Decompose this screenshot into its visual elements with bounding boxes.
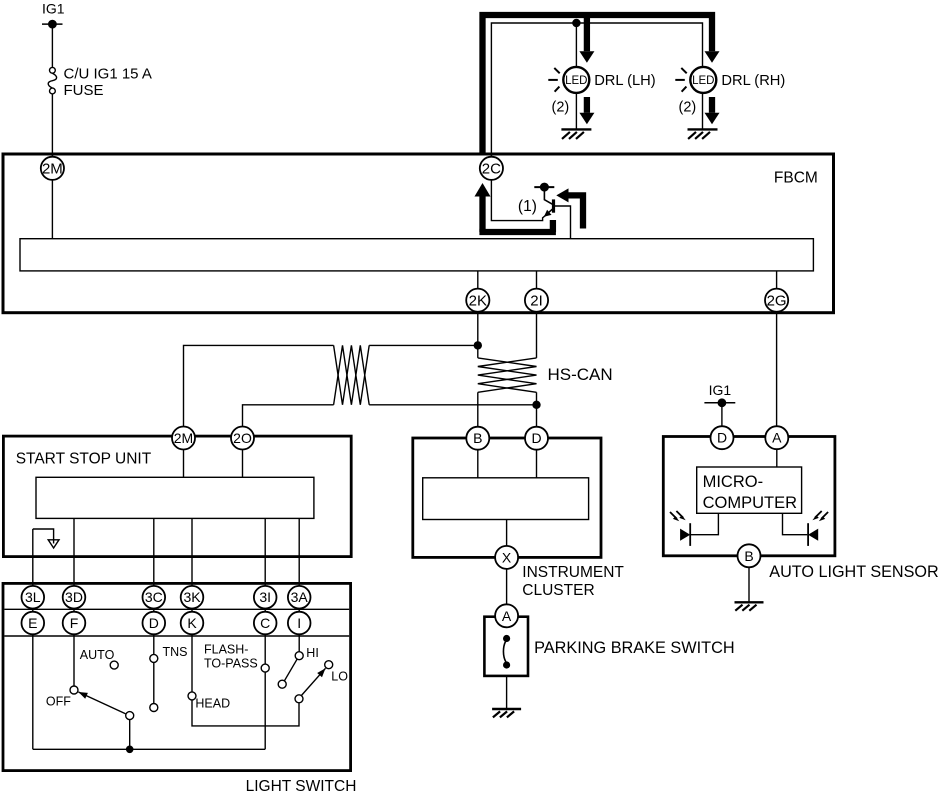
svg-text:LIGHT SWITCH: LIGHT SWITCH xyxy=(246,778,357,795)
pin A xyxy=(495,604,518,627)
svg-text:3C: 3C xyxy=(145,589,163,605)
wire braid to pin B xyxy=(477,392,479,426)
wire bus to 3D column xyxy=(73,518,75,686)
pivot contact main xyxy=(126,712,134,720)
contact TNS xyxy=(150,654,158,662)
svg-text:D: D xyxy=(531,430,541,446)
node IG1 sensor xyxy=(704,382,735,407)
contact LO xyxy=(325,661,333,669)
wire branch to LED LH xyxy=(575,23,577,67)
wire bus to 3K column xyxy=(191,518,193,692)
pin F xyxy=(63,612,86,635)
thick current arrow below LED LH xyxy=(579,97,594,124)
svg-text:3I: 3I xyxy=(259,589,271,605)
svg-text:START STOP UNIT: START STOP UNIT xyxy=(16,451,152,468)
FBCM box xyxy=(3,154,834,313)
pin 2M xyxy=(172,427,195,450)
switch arm LO with arrowhead xyxy=(302,668,326,695)
wire LED RH to ground xyxy=(702,93,704,129)
LIGHT SWITCH box xyxy=(3,583,351,770)
wire fuse to FBCM pin 2M xyxy=(51,94,53,160)
pin B xyxy=(466,427,489,450)
pin X xyxy=(495,546,518,569)
ground LED RH xyxy=(688,129,718,139)
junction dot on D wire xyxy=(532,401,540,409)
svg-text:D: D xyxy=(149,615,159,631)
svg-text:3L: 3L xyxy=(25,589,41,605)
HI arm wire xyxy=(284,659,297,681)
svg-text:A: A xyxy=(772,430,782,446)
wire B to bus xyxy=(477,445,479,478)
junction dot on 2K wire xyxy=(474,341,482,349)
wire bus to 3I column xyxy=(264,518,266,749)
svg-text:3A: 3A xyxy=(291,589,309,605)
svg-text:MICRO-: MICRO- xyxy=(703,473,764,491)
svg-text:LO: LO xyxy=(331,670,348,684)
pin 2O xyxy=(231,427,254,450)
wire D to bus xyxy=(536,445,538,478)
svg-text:I: I xyxy=(297,615,301,631)
wire bus to 2K xyxy=(477,271,479,358)
svg-text:K: K xyxy=(187,615,197,631)
svg-text:DRL (LH): DRL (LH) xyxy=(594,73,655,89)
LED DRL (RH) lamp xyxy=(675,67,785,115)
svg-text:C/U IG1 15 A: C/U IG1 15 A xyxy=(64,65,152,82)
pin 3I xyxy=(254,586,277,609)
svg-text:HS-CAN: HS-CAN xyxy=(548,365,613,384)
INSTRUMENT CLUSTER internal bus xyxy=(423,478,589,520)
photodiode left xyxy=(670,511,718,546)
wire transistor base to bus xyxy=(554,206,571,239)
wire bus to 2I xyxy=(536,271,538,358)
FBCM internal bus xyxy=(20,239,813,271)
wire 2O to bus xyxy=(242,445,244,477)
svg-text:FBCM: FBCM xyxy=(774,170,818,187)
svg-text:2K: 2K xyxy=(469,293,487,310)
svg-text:B: B xyxy=(473,430,482,446)
contact AUTO xyxy=(110,661,118,669)
wire IG1 to fuse xyxy=(51,24,53,67)
node IG1 xyxy=(42,1,65,29)
contact FLASH-TO-PASS xyxy=(261,664,269,672)
wire X to parking brake switch A xyxy=(506,569,508,608)
common wire E to C xyxy=(33,748,265,750)
contact OFF xyxy=(70,686,78,694)
svg-text:IG1: IG1 xyxy=(42,1,65,17)
svg-text:2C: 2C xyxy=(482,161,501,178)
svg-text:HEAD: HEAD xyxy=(195,697,230,711)
pin row separator line lower xyxy=(4,635,349,637)
contact HI xyxy=(295,652,303,660)
MICRO-COMPUTER block xyxy=(697,467,802,513)
svg-text:OFF: OFF xyxy=(46,695,71,709)
svg-text:PARKING BRAKE SWITCH: PARKING BRAKE SWITCH xyxy=(534,639,735,657)
INSTRUMENT CLUSTER box xyxy=(413,438,601,557)
LED DRL (LH) lamp xyxy=(548,67,655,115)
thick current arrow below LED RH xyxy=(705,97,720,124)
thick LED supply harness from 2C xyxy=(483,15,713,154)
svg-text:CLUSTER: CLUSTER xyxy=(522,582,594,599)
wire IG1 to pin D sensor xyxy=(721,403,723,427)
svg-text:D: D xyxy=(717,430,727,446)
svg-text:LED: LED xyxy=(565,75,587,87)
wire 2C to transistor emitter xyxy=(491,176,544,221)
wire braid to pin D xyxy=(536,392,538,426)
START STOP UNIT internal bus xyxy=(36,477,314,518)
svg-text:TNS: TNS xyxy=(163,645,188,659)
pin E xyxy=(22,612,45,635)
ground parking brake xyxy=(492,709,521,717)
thick branch arrow to LED LH xyxy=(584,15,590,51)
svg-text:(2): (2) xyxy=(679,99,697,115)
svg-text:DRL (RH): DRL (RH) xyxy=(721,73,785,89)
junction dot LED branch xyxy=(572,19,580,27)
wire A to micro-computer xyxy=(776,445,778,467)
pin 2C xyxy=(480,157,503,180)
svg-text:INSTRUMENT: INSTRUMENT xyxy=(522,564,624,581)
svg-text:COMPUTER: COMPUTER xyxy=(703,494,798,512)
pin C xyxy=(254,612,277,635)
svg-text:B: B xyxy=(744,548,753,564)
wire 2C to LED lamps xyxy=(491,23,702,156)
pin D sensor xyxy=(711,426,734,449)
pin 3A xyxy=(288,586,311,609)
wire LED LH to ground xyxy=(575,93,577,129)
wire 2M to bus xyxy=(183,445,185,477)
svg-text:HI: HI xyxy=(306,646,319,660)
thick current arrow up at 2C xyxy=(475,183,491,232)
pin 2G xyxy=(765,289,788,312)
svg-text:E: E xyxy=(28,615,37,631)
pin D xyxy=(143,612,166,635)
twisted pair braid right xyxy=(478,358,537,392)
svg-text:2M: 2M xyxy=(42,161,63,178)
svg-text:2G: 2G xyxy=(767,293,787,310)
svg-text:(1): (1) xyxy=(518,198,537,215)
svg-text:F: F xyxy=(70,615,79,631)
HI arm pivot contact xyxy=(278,680,286,688)
svg-text:FLASH-: FLASH- xyxy=(204,643,248,657)
pin 2K xyxy=(466,289,489,312)
AUTO LIGHT SENSOR box xyxy=(663,437,835,556)
switch arm OFF with arrowhead xyxy=(78,692,125,714)
wire B to ground xyxy=(748,567,750,602)
pin K xyxy=(181,612,204,635)
svg-text:C: C xyxy=(260,615,270,631)
TNS arm wire xyxy=(153,662,155,703)
svg-text:3D: 3D xyxy=(65,589,83,605)
TNS arm end contact xyxy=(150,704,158,712)
transistor Q (1) internal supply tap xyxy=(534,183,554,192)
svg-text:2O: 2O xyxy=(233,430,252,446)
thick arrowhead to LED RH xyxy=(705,51,720,63)
wire bus to 2G to auto light sensor A xyxy=(776,271,778,427)
thick current arrow into transistor base xyxy=(556,188,583,228)
ground sensor xyxy=(735,602,764,610)
pin 3K xyxy=(181,586,204,609)
contact HEAD xyxy=(188,692,196,700)
svg-text:AUTO LIGHT SENSOR: AUTO LIGHT SENSOR xyxy=(769,563,938,581)
pin D xyxy=(525,427,548,450)
pin B sensor xyxy=(738,544,761,567)
wire CAN-L 2O SSU to D xyxy=(243,405,537,426)
pin 2M xyxy=(41,157,64,180)
wire bus to 3C column xyxy=(153,518,155,654)
LO arm pivot contact xyxy=(295,695,303,703)
svg-text:LED: LED xyxy=(692,75,714,87)
svg-text:TO-PASS: TO-PASS xyxy=(204,657,258,671)
svg-text:2M: 2M xyxy=(174,430,193,446)
twisted pair braid left xyxy=(334,345,370,404)
svg-text:AUTO: AUTO xyxy=(80,648,115,662)
wire bus to 3A column xyxy=(298,518,300,651)
wire OFF arm pivot to common xyxy=(129,716,131,750)
wire 3L column xyxy=(32,529,34,749)
svg-text:3K: 3K xyxy=(183,589,201,605)
parking brake switch contacts xyxy=(503,635,510,669)
wire bus to X xyxy=(506,520,508,551)
wire HEAD to LO arm pivot xyxy=(192,700,299,726)
wire 2M to bus xyxy=(51,160,53,239)
pin 3D xyxy=(63,586,86,609)
pin 3L xyxy=(22,586,45,609)
svg-text:(2): (2) xyxy=(552,99,570,115)
PARKING BRAKE SWITCH box xyxy=(484,617,528,676)
pin 3C xyxy=(143,586,166,609)
wire CAN-H 2M SSU to 2K xyxy=(184,345,478,426)
photodiode right xyxy=(783,511,829,546)
transistor Q (1) xyxy=(518,187,554,217)
offpage arrow from 3L wire xyxy=(33,529,59,548)
START STOP UNIT box xyxy=(3,436,351,556)
wire parking brake to ground xyxy=(506,676,508,709)
fuse C/U IG1 15 A xyxy=(48,65,152,99)
ground LED LH xyxy=(561,129,591,139)
pin I xyxy=(288,612,311,635)
junction dot common xyxy=(126,746,134,754)
pin 2I xyxy=(525,289,548,312)
svg-text:2I: 2I xyxy=(530,293,543,310)
thick current bar at transistor emitter xyxy=(479,220,556,232)
pin A sensor xyxy=(765,426,788,449)
pin row separator line upper xyxy=(4,608,349,610)
svg-text:IG1: IG1 xyxy=(709,382,732,398)
svg-text:FUSE: FUSE xyxy=(64,82,104,99)
svg-text:A: A xyxy=(502,608,512,624)
svg-text:X: X xyxy=(502,549,512,565)
